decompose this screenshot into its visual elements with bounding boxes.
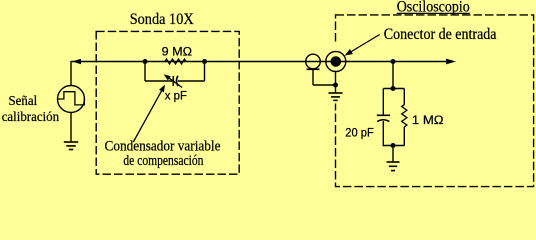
wire: plug shield down (312, 69, 314, 85)
node: RC network top junction (391, 86, 396, 91)
probe enclosure box (Sonda 10X) (96, 31, 239, 174)
wire: RC bottom bar (383, 145, 405, 147)
node: RC network bottom junction (391, 143, 396, 148)
arrow to scope amplifier (right end, pointing right) (446, 59, 456, 65)
resistor R1 9 MΩ (zigzag in main line) (165, 59, 186, 64)
svg-text:calibración: calibración (2, 109, 60, 124)
svg-text:x pF: x pF (165, 88, 187, 102)
wire: junction down to RC network (392, 62, 394, 89)
svg-text:1 MΩ: 1 MΩ (412, 113, 444, 127)
wire: left leg down to compensation branch (144, 62, 146, 82)
wire: RC top bar (383, 88, 404, 90)
arrow into probe tip (left end, pointing left) (72, 59, 81, 65)
wire: connector barrel to ground (335, 72, 337, 93)
ground symbol under source (64, 141, 78, 143)
capacitor C2 20 pF: curved plate (377, 120, 389, 122)
ground symbol under connector (329, 92, 343, 94)
node: shield/ground junction (333, 83, 338, 88)
variable capacitor C1 (x pF): straight plate (172, 76, 174, 86)
resistor R2 1 MΩ (vertical zigzag) (402, 105, 407, 127)
wire: right leg up from compensation branch (204, 62, 206, 82)
node: left junction of R1/C1 (143, 59, 148, 64)
wire: capacitor branch lower segment (382, 121, 384, 146)
svg-text:Señal: Señal (9, 93, 38, 108)
ground symbol under RC network (387, 161, 400, 163)
capacitor C2 20 pF: straight plate (377, 114, 390, 116)
variable capacitor C1: curved plate (176, 76, 177, 86)
svg-text:Sonda 10X: Sonda 10X (130, 11, 194, 28)
variable capacitor C1: adjustment arrow (168, 77, 182, 87)
leader arrow from note to connector (351, 35, 379, 52)
wire: source bottom to ground (70, 113, 72, 143)
probe plug shield bar (307, 68, 320, 70)
wire: branch horizontal right segment (178, 80, 205, 82)
svg-text:Conector de entrada: Conector de entrada (384, 26, 497, 43)
probe plug P1 (open circle on main line) (306, 54, 321, 69)
svg-text:20 pF: 20 pF (345, 125, 374, 139)
square wave glyph inside source (58, 92, 85, 105)
wire: resistor branch lower segment (403, 127, 405, 146)
wire: plug shield to connector ground (313, 84, 336, 86)
svg-text:9 MΩ: 9 MΩ (162, 44, 192, 58)
node: right junction of R1/C1 (202, 59, 207, 64)
mask: hide dashed edge behind connector column (333, 44, 338, 104)
wire: branch horizontal left segment (145, 80, 173, 82)
wire: resistor branch upper segment (403, 89, 405, 105)
connector J1 BNC outer barrel (yellow fill masks dashed box edge) (326, 52, 346, 72)
wire: RC bottom to ground (392, 146, 394, 163)
leader arrow from note to variable capacitor (133, 91, 161, 142)
wire: drop from main line to calibration source (70, 62, 72, 87)
connector J1 center pin (filled dot) (331, 56, 342, 67)
wire: main horizontal signal line (71, 61, 448, 63)
wire: capacitor branch upper segment (382, 89, 384, 115)
signal source V1 (square-wave calibrator circle) (58, 86, 85, 113)
node: scope input junction on main line (391, 59, 396, 64)
svg-text:de compensación: de compensación (123, 153, 204, 169)
oscilloscope enclosure box (Osciloscopio) (336, 15, 534, 187)
